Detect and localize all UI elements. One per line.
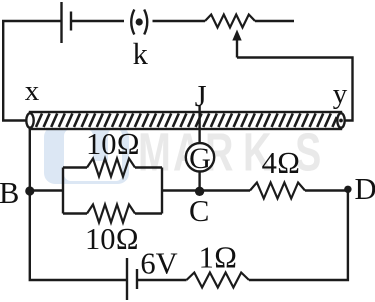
svg-text:D: D [355,172,375,206]
svg-text:B: B [0,176,19,210]
svg-text:y: y [333,78,348,110]
svg-text:10Ω: 10Ω [86,127,140,161]
svg-text:G: G [189,142,211,175]
svg-text:C: C [189,194,209,228]
svg-text:M: M [138,123,171,184]
svg-text:x: x [25,75,40,107]
svg-text:1Ω: 1Ω [199,241,238,275]
svg-text:4Ω: 4Ω [262,146,301,180]
svg-text:6V: 6V [140,247,177,281]
svg-text:J: J [195,79,207,113]
svg-text:10Ω: 10Ω [85,222,139,256]
svg-text:k: k [133,37,149,71]
